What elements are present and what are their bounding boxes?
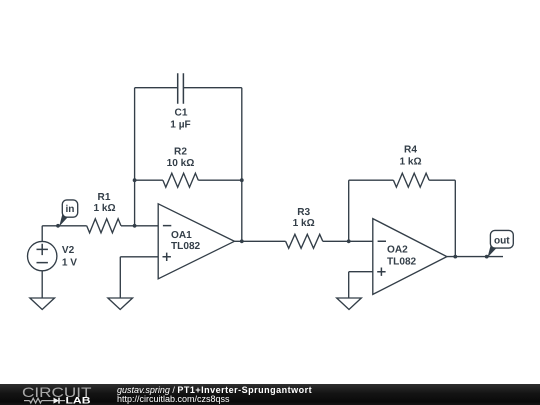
- svg-text:OA2: OA2: [387, 245, 408, 256]
- svg-text:LAB: LAB: [66, 396, 91, 405]
- svg-text:1 kΩ: 1 kΩ: [93, 203, 115, 214]
- svg-text:R4: R4: [404, 145, 417, 156]
- svg-text:R1: R1: [98, 192, 111, 203]
- svg-text:10 kΩ: 10 kΩ: [167, 158, 195, 169]
- svg-text:C1: C1: [175, 108, 188, 119]
- svg-text:R2: R2: [174, 146, 187, 157]
- svg-text:1 kΩ: 1 kΩ: [399, 156, 421, 167]
- svg-text:R3: R3: [297, 207, 310, 218]
- svg-text:V2: V2: [62, 245, 75, 256]
- svg-text:1 µF: 1 µF: [170, 120, 190, 131]
- svg-text:in: in: [66, 204, 75, 215]
- svg-text:TL082: TL082: [387, 257, 417, 268]
- svg-text:1 kΩ: 1 kΩ: [293, 218, 315, 229]
- svg-text:OA1: OA1: [171, 230, 192, 241]
- svg-text:1 V: 1 V: [62, 257, 77, 268]
- svg-text:TL082: TL082: [171, 241, 201, 252]
- svg-text:out: out: [494, 235, 510, 246]
